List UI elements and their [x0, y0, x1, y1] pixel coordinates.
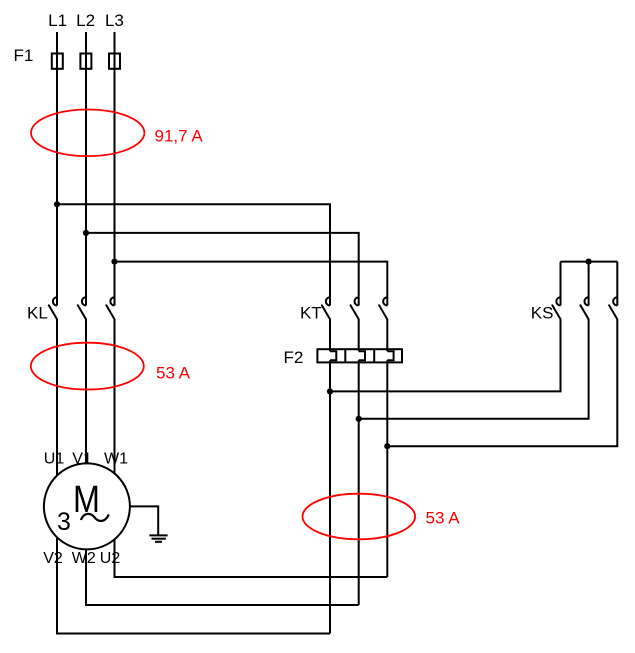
wire KL pole 1 to motor U1	[56, 319, 58, 475]
svg-text:KT: KT	[300, 304, 322, 323]
svg-text:L1: L1	[48, 11, 67, 30]
wire L3 tap to KT pole 3	[115, 262, 388, 306]
wire L2 top vertical	[85, 32, 87, 306]
wire motor U2 to delta riser 3	[115, 539, 388, 577]
wire riser 2 to KS pole 2	[359, 319, 589, 419]
svg-text:U1: U1	[44, 450, 65, 467]
wire F2 out riser 3	[386, 360, 388, 577]
overload relay F2 box	[317, 349, 402, 362]
current measurement ellipse 53 A (delta side)	[303, 494, 416, 540]
svg-text:L2: L2	[76, 11, 95, 30]
overload relay F2 element 3	[387, 351, 393, 360]
svg-text:KL: KL	[27, 304, 48, 323]
contactor KL pole 1	[49, 297, 57, 319]
junction L2 tap	[83, 230, 89, 236]
wire KL pole 3 to motor W1	[114, 319, 116, 473]
motor M1 body	[44, 463, 130, 549]
current measurement ellipse 53 A (line side)	[31, 343, 144, 390]
wire KS bus drop 2	[588, 262, 590, 306]
junction riser 2 to KS	[356, 416, 362, 422]
svg-text:53 A: 53 A	[426, 509, 461, 528]
wire KT pole 2 to F2	[358, 319, 360, 351]
contactor KS pole 3	[609, 297, 617, 319]
wire KL pole 2 to motor V1	[85, 319, 87, 463]
junction L1 tap	[54, 201, 60, 207]
wire L1 tap to KT pole 1	[57, 204, 330, 305]
wire F2 out riser 1	[329, 360, 331, 633]
wire KS bus drop 3	[616, 262, 618, 306]
ground	[149, 535, 167, 541]
svg-text:53 A: 53 A	[156, 364, 191, 383]
svg-text:91,7 A: 91,7 A	[155, 127, 204, 146]
wire motor V2 to delta riser 1	[57, 537, 330, 633]
wire motor frame to ground	[130, 506, 158, 535]
wire L1 top vertical	[56, 32, 58, 306]
junction KS star bus	[586, 259, 592, 265]
svg-text:F2: F2	[284, 348, 304, 367]
overload relay F2 element 1	[330, 351, 336, 360]
contactor KS pole 1	[552, 297, 560, 319]
current measurement ellipse 91,7 A	[31, 110, 144, 157]
wire motor W2 to delta riser 2	[86, 549, 359, 605]
svg-text:W2: W2	[72, 550, 96, 567]
wire KS bus drop 1	[560, 262, 562, 306]
wire F2 out riser 2	[358, 360, 360, 605]
svg-text:F1: F1	[14, 46, 34, 65]
wire riser 1 to KS pole 1	[330, 319, 561, 391]
wire L2 tap to KT pole 2	[86, 233, 359, 306]
svg-text:L3: L3	[105, 11, 124, 30]
wire riser 3 to KS pole 3	[387, 319, 617, 446]
fuse F1 pole 3	[109, 54, 120, 69]
svg-text:KS: KS	[531, 304, 554, 323]
junction L3 tap	[111, 259, 117, 265]
contactor KT pole 3	[379, 297, 387, 319]
contactor KL pole 3	[106, 297, 114, 319]
junction riser 1 to KS	[327, 388, 333, 394]
svg-text:3: 3	[57, 508, 71, 536]
motor AC tilde	[81, 514, 109, 521]
junction riser 3 to KS	[384, 443, 390, 449]
wire KT pole 1 to F2	[329, 319, 331, 351]
svg-text:V2: V2	[43, 550, 63, 567]
contactor KT pole 1	[322, 297, 330, 319]
svg-text:U2: U2	[100, 550, 121, 567]
fuse F1 pole 1	[52, 54, 63, 69]
svg-text:W1: W1	[104, 450, 128, 467]
contactor KT pole 2	[351, 297, 359, 319]
wire L3 top vertical	[114, 32, 116, 306]
overload relay F2 element 2	[359, 351, 365, 360]
fuse F1 pole 2	[80, 54, 91, 69]
wire KT pole 3 to F2	[386, 319, 388, 351]
wire KS star bus	[561, 261, 618, 263]
contactor KS pole 2	[580, 297, 588, 319]
contactor KL pole 2	[78, 297, 86, 319]
